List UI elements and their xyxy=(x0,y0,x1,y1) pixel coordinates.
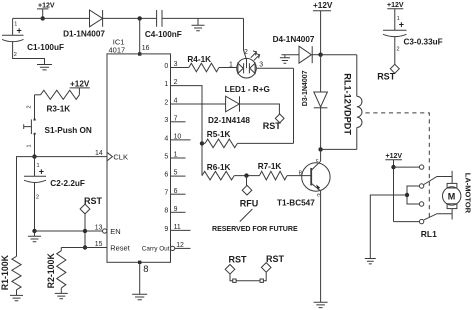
junction on top rail at +12V xyxy=(41,16,45,20)
ground for C1 xyxy=(37,65,52,70)
contact terminal 2 xyxy=(419,184,423,188)
svg-text:2: 2 xyxy=(397,47,400,53)
diode D4 xyxy=(299,46,312,63)
resistor R2 xyxy=(57,251,66,288)
svg-text:D4-1N4007: D4-1N4007 xyxy=(273,35,315,44)
dashed mechanical link xyxy=(366,113,430,218)
node RST at D2 xyxy=(275,114,284,123)
svg-text:13: 13 xyxy=(95,225,103,232)
svg-text:+12V: +12V xyxy=(38,2,55,9)
svg-text:+: + xyxy=(39,167,44,177)
svg-text:R3-1K: R3-1K xyxy=(47,105,71,114)
resistor R7 xyxy=(259,171,287,180)
wire R2 to ground xyxy=(60,288,62,294)
ground stub on top rail xyxy=(197,18,199,25)
wire top rail middle segment xyxy=(103,17,157,19)
svg-text:3: 3 xyxy=(164,117,168,124)
svg-text:C3-0.33uF: C3-0.33uF xyxy=(404,38,443,47)
svg-text:D1-1N4007: D1-1N4007 xyxy=(63,29,105,38)
wire collector to junction xyxy=(320,149,322,161)
svg-text:S1-Push ON: S1-Push ON xyxy=(45,126,92,135)
svg-text:8: 8 xyxy=(143,264,148,275)
resistor R4 xyxy=(189,63,219,72)
transistor T1 BC547 xyxy=(302,161,330,191)
junction R6 / R7 / RFU xyxy=(244,173,248,177)
svg-text:2: 2 xyxy=(244,49,248,56)
svg-text:RST: RST xyxy=(229,255,248,265)
wire top rail left segment xyxy=(13,17,90,19)
svg-text:8: 8 xyxy=(164,208,168,215)
junction D4 / main vertical xyxy=(318,53,322,57)
ground for R1 xyxy=(10,295,23,300)
wire D2 cathode to RST xyxy=(240,104,280,114)
led LED1 R+G bicolor xyxy=(237,58,257,78)
svg-text:RST: RST xyxy=(84,196,103,206)
wire LED loop down xyxy=(293,68,295,143)
wire main vertical to D3 xyxy=(320,55,322,92)
junction D3 / relay / collector xyxy=(318,147,322,151)
pin 3 stub output 0 xyxy=(171,67,189,69)
junction S1 / CLK / R1 xyxy=(32,154,36,158)
wire between terminal pads xyxy=(236,280,260,282)
diode D1 xyxy=(90,10,103,27)
wire LED1 pin 3 right xyxy=(256,67,293,69)
junction C2 / EN wire / ground xyxy=(32,229,36,233)
junction RST vertical and EN wire xyxy=(83,229,87,233)
wire R4 to LED1 pin 1 xyxy=(219,67,237,69)
svg-text:RST: RST xyxy=(263,121,282,131)
pin stub output 8 (pin 9) xyxy=(171,211,186,213)
led emission arrows xyxy=(251,51,260,61)
svg-text:+12V: +12V xyxy=(386,153,403,160)
svg-text:2: 2 xyxy=(164,99,168,106)
wire junction left and down to R1 xyxy=(17,157,35,257)
pin 12 stub xyxy=(175,247,191,249)
op IC1 4017 body xyxy=(107,54,171,262)
svg-text:1: 1 xyxy=(229,61,233,68)
power +12V at C3 xyxy=(387,2,404,30)
svg-text:M: M xyxy=(448,192,456,202)
junction R5 branch xyxy=(200,141,204,145)
svg-text:10: 10 xyxy=(174,134,182,141)
power +12V at contacts xyxy=(385,153,402,222)
wire junction up to D4 wire and right to relay top xyxy=(321,54,357,56)
svg-text:C2-2.2uF: C2-2.2uF xyxy=(50,179,85,188)
power +12V main xyxy=(313,1,333,55)
svg-text:RESERVED FOR FUTURE: RESERVED FOR FUTURE xyxy=(212,225,298,233)
wire junction to CLK pin 14 xyxy=(35,156,108,158)
ground for contact bracket xyxy=(365,259,376,264)
svg-text:+: + xyxy=(17,26,22,36)
wire to contact 4 xyxy=(394,221,420,223)
svg-text:6: 6 xyxy=(164,172,168,179)
contact terminal 3 xyxy=(419,202,423,206)
relay coil RL1 xyxy=(357,55,362,150)
svg-text:4017: 4017 xyxy=(109,46,126,55)
svg-text:11: 11 xyxy=(174,224,181,231)
junction contacts +12V branch xyxy=(391,165,395,169)
wire rail corner down to LED1 pin 2 xyxy=(244,18,247,59)
svg-text:R2-100K: R2-100K xyxy=(46,253,56,289)
svg-text:+12V: +12V xyxy=(313,1,333,10)
diode D3 xyxy=(314,92,328,108)
junction top rail to IC pin 16 xyxy=(138,16,142,20)
clock wedge on pin 14 xyxy=(107,152,112,161)
power +12V rail tap xyxy=(37,2,55,18)
wire R3 to switch S1 xyxy=(34,95,36,119)
svg-text:RFU: RFU xyxy=(240,198,258,208)
svg-text:R1-100K: R1-100K xyxy=(0,254,10,290)
svg-text:+12V: +12V xyxy=(387,2,404,9)
wire RST bottom right stub xyxy=(263,272,266,281)
svg-text:2: 2 xyxy=(174,79,178,86)
wire top rail right segment xyxy=(162,17,244,19)
junction RST vertical and Reset wire xyxy=(83,245,87,249)
wire relay bottom to junction xyxy=(321,148,357,150)
junction bracket xyxy=(405,193,409,197)
resistor R3 xyxy=(35,90,80,99)
contact terminal 4 xyxy=(419,219,423,223)
svg-text:0: 0 xyxy=(164,63,168,70)
svg-text:c: c xyxy=(316,158,319,164)
svg-text:4: 4 xyxy=(174,98,178,105)
wire RFU stub xyxy=(246,176,248,186)
ground stub at C2 junction xyxy=(34,231,36,236)
svg-text:15: 15 xyxy=(95,241,103,248)
svg-text:6: 6 xyxy=(174,188,178,195)
carry out bubble pin 12 xyxy=(170,246,174,250)
svg-text:9: 9 xyxy=(164,226,168,233)
ground for D4 anode xyxy=(280,55,290,64)
node RST at EN xyxy=(80,204,90,214)
svg-text:RST: RST xyxy=(266,254,285,264)
pin stub output 6 (pin 5) xyxy=(171,175,186,177)
svg-text:T1-BC547: T1-BC547 xyxy=(277,199,315,208)
svg-text:C1-100uF: C1-100uF xyxy=(27,43,64,52)
svg-text:D2-1N4148: D2-1N4148 xyxy=(208,116,250,125)
svg-text:C4-100nF: C4-100nF xyxy=(145,30,182,39)
svg-text:+: + xyxy=(399,20,404,30)
ground for T1 emitter xyxy=(314,302,328,307)
pin stub output 3 (pin 7) xyxy=(171,121,186,123)
pointer line to RFU xyxy=(240,209,253,222)
svg-text:Reset: Reset xyxy=(110,243,131,252)
contact terminal 1 xyxy=(419,165,423,169)
svg-text:RST: RST xyxy=(377,71,396,81)
pin stub output 4 (pin 10) xyxy=(171,139,191,141)
pin 8 pad xyxy=(138,261,141,264)
wire D3 cathode to junction xyxy=(320,107,322,149)
svg-text:1: 1 xyxy=(164,81,168,88)
wire R5 to LED loop xyxy=(237,142,293,144)
pin 2 stub output 1 xyxy=(171,86,203,176)
svg-text:2: 2 xyxy=(27,105,33,108)
svg-text:12: 12 xyxy=(176,242,184,249)
svg-text:R6-1K: R6-1K xyxy=(207,163,231,172)
svg-text:5: 5 xyxy=(174,170,178,177)
switch arm upper xyxy=(424,177,452,185)
wire to contact 1 xyxy=(394,166,420,168)
wire T1 emitter to ground xyxy=(320,191,322,302)
switch S1 push button xyxy=(24,119,36,135)
pin 16 pad xyxy=(138,52,141,55)
svg-text:9: 9 xyxy=(174,206,178,213)
wire RST diamond down to Reset wire xyxy=(84,214,86,248)
wire D4 cathode to main vertical xyxy=(312,54,320,56)
capacitor C1 xyxy=(2,18,45,64)
wire Reset down to R2 xyxy=(60,248,62,251)
resistor R5 xyxy=(202,139,237,148)
svg-text:1: 1 xyxy=(27,144,33,147)
node RFU xyxy=(242,185,252,195)
power +12V at R3 xyxy=(70,79,90,95)
svg-text:14: 14 xyxy=(95,150,103,157)
wire Reset net pin 15 xyxy=(61,247,107,249)
node RST bottom right xyxy=(261,263,271,273)
node RST at C3 xyxy=(390,64,399,73)
svg-text:B: B xyxy=(299,170,303,176)
svg-text:LED1 - R+G: LED1 - R+G xyxy=(225,85,270,94)
wire RST bottom left stub xyxy=(230,274,233,281)
enable bubble pin 13 xyxy=(103,229,107,233)
terminal pad left xyxy=(233,279,236,282)
wire to IC pin 16 xyxy=(139,18,141,54)
ground for R2 xyxy=(55,293,68,298)
ground for top rail xyxy=(192,25,205,30)
svg-text:R4-1K: R4-1K xyxy=(187,55,211,64)
svg-text:R5-1K: R5-1K xyxy=(207,130,231,139)
svg-text:7: 7 xyxy=(164,190,168,197)
pin stub output 7 (pin 6) xyxy=(171,193,186,195)
capacitor C2 xyxy=(24,157,46,231)
svg-text:7: 7 xyxy=(174,115,178,122)
wire D4 anode xyxy=(282,54,300,56)
svg-text:Carry Out: Carry Out xyxy=(142,245,170,252)
wire R7 to T1 base xyxy=(287,175,311,177)
capacitor C4 xyxy=(157,10,162,27)
svg-text:3: 3 xyxy=(174,61,178,68)
svg-text:LA-MOTOR: LA-MOTOR xyxy=(463,173,472,214)
svg-text:RL1-12VDPDT: RL1-12VDPDT xyxy=(343,73,353,135)
terminal pad right xyxy=(260,279,263,282)
wire pin 8 to ground xyxy=(139,262,141,294)
svg-text:2: 2 xyxy=(14,52,17,58)
svg-text:5: 5 xyxy=(164,153,168,160)
ground for C2 junction xyxy=(28,236,41,241)
wire R6 to junction xyxy=(234,175,259,177)
svg-text:EN: EN xyxy=(110,227,120,236)
svg-text:CLK: CLK xyxy=(113,152,128,161)
wire R1 to ground xyxy=(16,290,18,296)
ground for pin 8 xyxy=(132,294,147,299)
wire bracket to ground xyxy=(370,195,407,259)
wire S1 to CLK junction xyxy=(34,134,36,157)
svg-text:2: 2 xyxy=(36,195,39,201)
pin 4 stub output 2 xyxy=(171,103,226,105)
svg-text:3: 3 xyxy=(259,61,263,68)
switch arm lower xyxy=(424,214,452,220)
svg-text:16: 16 xyxy=(142,45,150,52)
capacitor C3 xyxy=(383,16,407,64)
pin stub output 9 (pin 11) xyxy=(171,229,191,231)
svg-text:4: 4 xyxy=(164,135,168,142)
svg-text:e: e xyxy=(317,193,320,199)
svg-text:+12V: +12V xyxy=(70,79,90,88)
diode D2 xyxy=(226,96,240,112)
node RST bottom left xyxy=(225,265,235,275)
motor LA-MOTOR xyxy=(443,171,461,220)
pin stub output 5 (pin 1) xyxy=(171,157,186,159)
resistor R1 xyxy=(12,256,21,289)
svg-text:R7-1K: R7-1K xyxy=(258,162,282,171)
bracket wire contacts 2 and 3 xyxy=(407,186,419,204)
svg-text:D3-1N4007: D3-1N4007 xyxy=(302,70,309,106)
svg-text:RL1: RL1 xyxy=(421,229,437,239)
resistor R6 xyxy=(202,171,234,180)
wire EN net to pin 13 xyxy=(35,230,103,232)
svg-text:1: 1 xyxy=(174,152,178,159)
